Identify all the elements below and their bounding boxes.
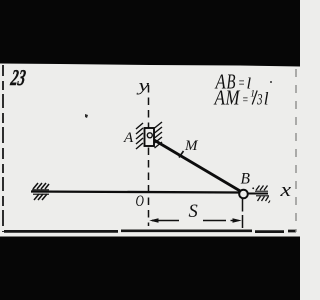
speck near AB=l [270,81,272,83]
y axis dashed line [148,85,150,226]
top black scan band [0,0,300,67]
svg-text:x: x [279,180,291,201]
svg-text:B: B [241,171,251,188]
svg-text:O: O [136,193,145,210]
dashed drop line below B [242,199,244,229]
point M tick on rod [179,151,184,158]
svg-text:A: A [123,130,134,146]
svg-text:=: = [242,93,249,108]
svg-text:A: A [213,86,225,110]
left wall hatch below axis [33,194,49,200]
slider block at A [145,128,155,146]
right arrowhead [233,218,242,223]
svg-text:y: y [136,76,150,95]
svg-text:S: S [189,202,198,222]
right wall hatch below axis (near B) [256,196,270,203]
right edge dashed scan line [295,69,297,232]
rod AB [152,139,242,192]
label AB = l [214,70,252,94]
svg-text:M: M [225,86,241,110]
slider hatch right of A block [155,122,163,148]
svg-text:M: M [184,138,199,154]
left wall hatch above axis [32,183,49,190]
left edge dashed scan line [2,65,4,232]
label AM = 1/3 l [213,86,249,110]
right wall hatch above axis (near B) [252,186,268,192]
dimension line S with arrows [152,220,239,222]
slider hatch left of A block [136,123,143,149]
pin circle inside slider [147,133,152,138]
svg-text:3: 3 [256,92,262,109]
bottom irregular scan line [4,229,296,233]
roller circle at B [239,190,248,199]
svg-text:l: l [264,89,269,109]
x axis main line [31,192,240,193]
x axis line right of B [248,193,268,195]
ink speck left of y axis [85,114,88,118]
figure number 23 [8,66,27,91]
left arrowhead [149,218,158,223]
bottom black scan band [0,237,300,300]
